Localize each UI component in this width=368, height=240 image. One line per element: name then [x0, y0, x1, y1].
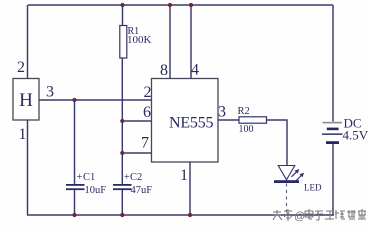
- wire NE555 pin 6: [122, 120, 151, 122]
- battery plate 4 short thick: [326, 141, 339, 144]
- junction dot pin6 branch: [120, 119, 124, 123]
- svg-text:2: 2: [17, 59, 25, 76]
- svg-text:1: 1: [19, 126, 27, 143]
- svg-text:NE555: NE555: [169, 115, 214, 132]
- resistor R1 body: [120, 26, 127, 59]
- svg-text:10uF: 10uF: [85, 185, 107, 196]
- svg-text:1: 1: [180, 167, 188, 184]
- wire H pin 3 to NE555 pin 2: [39, 99, 152, 101]
- wire right vertical from top bus to battery: [332, 5, 334, 122]
- junction dot pin4 at top bus: [189, 3, 193, 7]
- wire NE555 pin 3 to R2: [218, 119, 239, 121]
- svg-text:H: H: [19, 90, 33, 111]
- junction dot R1 at top bus: [120, 3, 124, 7]
- component H (crystal/module): [13, 79, 39, 121]
- wire C2 lower lead: [121, 190, 123, 215]
- svg-text:LED: LED: [304, 183, 322, 193]
- svg-text:2: 2: [144, 84, 152, 101]
- svg-text:@: @: [294, 211, 305, 223]
- battery plate 3 long thin: [322, 133, 343, 135]
- watermark char 4: [305, 209, 313, 219]
- battery plate 2 short thick: [327, 128, 339, 131]
- wire bottom ground bus: [27, 214, 334, 216]
- watermark char 7: [335, 210, 345, 219]
- svg-text:47uF: 47uF: [131, 185, 153, 196]
- watermark char 5: [315, 211, 323, 220]
- capacitor C2 bottom plate: [113, 188, 132, 190]
- svg-text:100: 100: [239, 124, 254, 135]
- wire NE555 pin 4 to top bus: [190, 5, 192, 79]
- resistor R2 body: [239, 117, 267, 123]
- wire LED cathode dashed to ground bus: [286, 184, 288, 216]
- svg-text:8: 8: [160, 62, 168, 79]
- capacitor C1 bottom plate: [66, 188, 85, 190]
- wire NE555 pin 7: [122, 152, 151, 154]
- svg-text:7: 7: [141, 135, 149, 152]
- watermark char 8: [347, 210, 356, 219]
- wire top supply bus: [28, 4, 333, 6]
- svg-text:4.5V: 4.5V: [343, 128, 368, 143]
- LED emission arrow 1: [292, 169, 300, 177]
- svg-text:3: 3: [46, 84, 54, 101]
- watermark toutiao logo char 1: [273, 210, 282, 220]
- wire C1 lower lead: [74, 190, 76, 215]
- watermark char 6: [325, 211, 334, 219]
- svg-text:C1: C1: [83, 172, 95, 183]
- wire R1 bottom lead down to C2: [121, 58, 123, 184]
- svg-text:4: 4: [191, 62, 199, 79]
- svg-text:100K: 100K: [127, 34, 152, 46]
- wire C1 upper branch: [74, 100, 76, 184]
- junction dot pin8 at top bus: [168, 3, 172, 7]
- diode LED cathode bar: [274, 180, 299, 183]
- svg-text:6: 6: [143, 104, 151, 121]
- svg-text:R2: R2: [238, 106, 250, 117]
- junction dot node at H pin3 / C1 branch: [72, 98, 76, 102]
- battery BT1 plate 1 long gray: [323, 122, 343, 124]
- op-amp/timer U1 NE555 body: [152, 79, 219, 163]
- svg-text:C2: C2: [130, 172, 142, 183]
- watermark char 9: [358, 209, 366, 219]
- capacitor C1 top plate: [66, 184, 85, 186]
- junction dot C2 at ground bus: [120, 213, 124, 217]
- capacitor C2 top plate: [113, 184, 132, 186]
- wire battery negative to ground bus: [332, 144, 334, 215]
- junction dot pin1 at ground bus: [188, 213, 192, 217]
- svg-text:3: 3: [218, 104, 226, 121]
- wire H pin 1 down to ground bus: [27, 120, 29, 215]
- watermark char 2: [284, 209, 292, 221]
- junction dot pin7 branch: [120, 151, 124, 155]
- wire R1 top lead: [122, 5, 124, 26]
- wire NE555 pin 8 to top bus: [169, 5, 171, 79]
- svg-text:+: +: [77, 172, 83, 183]
- LED emission arrow 2: [296, 173, 304, 181]
- junction dot C1 at ground bus: [72, 213, 76, 217]
- wire NE555 pin 1 to ground bus: [189, 162, 191, 215]
- wire R2 to LED anode: [267, 120, 288, 166]
- diode LED triangle: [278, 166, 295, 180]
- wire left vertical to H pin 2: [27, 5, 29, 79]
